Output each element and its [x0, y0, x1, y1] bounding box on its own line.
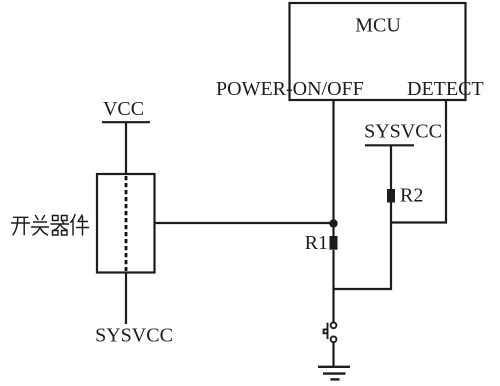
- 件: [71, 215, 89, 236]
- svg-text:R2: R2: [400, 185, 423, 207]
- wire R2 bottom down: [390, 202, 392, 290]
- wire switch to ground: [332, 342, 334, 367]
- node A junction dot: [329, 219, 337, 227]
- ground symbol: [318, 367, 350, 380]
- 器: [51, 216, 69, 236]
- svg-text:MCU: MCU: [355, 15, 401, 37]
- resistor R2 body: [387, 189, 395, 203]
- 开: [12, 217, 30, 235]
- wire node to switch S1: [332, 250, 334, 322]
- wire DETECT horizontal to R2 net: [390, 221, 447, 223]
- MCU U1 box: [290, 3, 466, 100]
- wire DETECT pin down: [445, 100, 447, 224]
- wire bottom horizontal R1 net to R2 net: [334, 288, 393, 290]
- svg-text:DETECT: DETECT: [407, 78, 484, 100]
- wire SYSVCC to R2: [390, 145, 392, 189]
- wire switch box to node A: [155, 222, 334, 224]
- switch S1 bottom contact: [331, 336, 337, 342]
- wire switch box bottom to SYSVCC: [125, 273, 127, 325]
- switch device dashed line: [125, 176, 128, 271]
- wire VCC to switch box: [125, 122, 127, 174]
- switch S1 top contact: [331, 322, 337, 328]
- svg-text:R1: R1: [305, 232, 328, 254]
- wire POWER-ON/OFF pin to node A: [332, 100, 334, 237]
- 关: [32, 216, 49, 236]
- switch device box: [97, 174, 155, 273]
- svg-text:POWER-ON/OFF: POWER-ON/OFF: [216, 78, 364, 100]
- svg-text:SYSVCC: SYSVCC: [364, 121, 442, 143]
- switch S1 actuator: [324, 323, 328, 339]
- svg-text:VCC: VCC: [103, 98, 144, 120]
- VCC bar: [102, 121, 150, 123]
- svg-text:SYSVCC: SYSVCC: [95, 325, 173, 347]
- label 开关器件 (drawn strokes): [12, 215, 89, 236]
- resistor R1 body: [330, 236, 338, 250]
- SYSVCC bar: [365, 144, 414, 146]
